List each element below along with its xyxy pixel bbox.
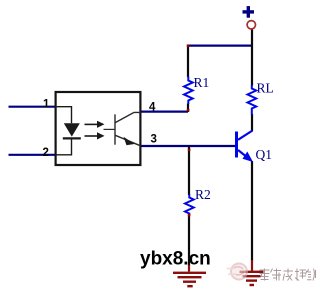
svg-text:1: 1	[43, 99, 50, 111]
svg-text:ybx8.cn: ybx8.cn	[140, 249, 211, 270]
svg-text:RL: RL	[257, 81, 274, 96]
svg-text:4: 4	[149, 102, 156, 114]
svg-text:Q1: Q1	[256, 147, 273, 162]
svg-text:R1: R1	[194, 75, 210, 90]
svg-text:2: 2	[43, 147, 49, 159]
svg-text:R2: R2	[195, 187, 211, 202]
svg-text:3: 3	[151, 134, 157, 146]
